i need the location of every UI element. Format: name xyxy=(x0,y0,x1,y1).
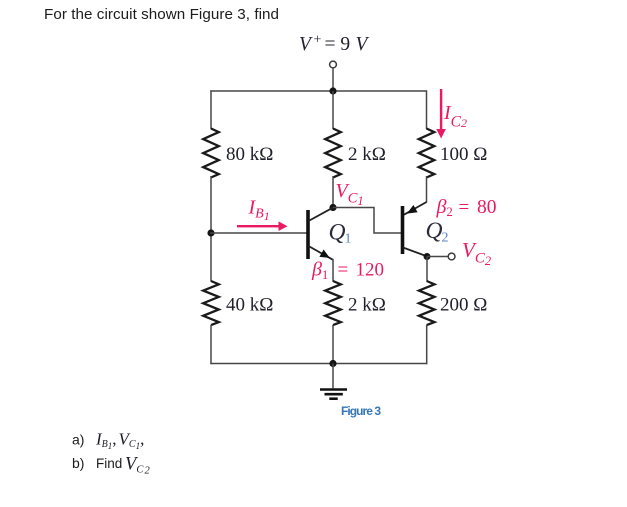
svg-text:2 kΩ: 2 kΩ xyxy=(348,144,386,165)
transistor Q1 base bar xyxy=(306,210,310,259)
Q1 collector diagonal xyxy=(309,207,334,221)
svg-text:100 Ω: 100 Ω xyxy=(440,144,487,165)
node: collector VC2 junction dot xyxy=(424,253,431,260)
svg-text:IB1,VC1,: IB1,VC1, xyxy=(95,430,144,452)
ground symbol xyxy=(320,364,347,399)
svg-text:b): b) xyxy=(72,455,84,471)
wire: right column top xyxy=(426,90,428,129)
wire: right column to Q2 emitter xyxy=(426,176,428,203)
transistor Q2 base bar xyxy=(401,206,405,254)
wire: left column middle xyxy=(210,176,212,282)
resistor RE1 2k zigzag xyxy=(325,281,341,325)
node: VC1 junction dot xyxy=(329,204,336,211)
svg-text:VC2: VC2 xyxy=(462,238,491,268)
svg-text:2 kΩ: 2 kΩ xyxy=(348,295,386,316)
wire: middle column top xyxy=(332,91,334,129)
svg-text:Q2: Q2 xyxy=(426,218,449,246)
Q2 collector diagonal xyxy=(403,248,428,257)
svg-text:IC2: IC2 xyxy=(443,102,467,131)
wire: Q2 collector down xyxy=(426,257,428,282)
wire: middle column bottom xyxy=(332,325,334,364)
resistor RC1 2k zigzag xyxy=(325,129,341,178)
wire: Q1 base wire xyxy=(210,232,306,234)
wire: left column top xyxy=(210,90,212,129)
wire: VC1 to Q2 base link xyxy=(333,208,402,234)
svg-text:β2=80: β2=80 xyxy=(436,196,497,219)
svg-text:V+= 9 V: V+= 9 V xyxy=(299,33,370,56)
svg-text:VC2: VC2 xyxy=(125,455,151,477)
svg-text:β1=120: β1=120 xyxy=(311,259,384,283)
svg-text:a): a) xyxy=(72,432,84,448)
svg-text:Find: Find xyxy=(96,456,122,471)
resistor R 80k zigzag xyxy=(203,129,219,178)
wire: to VC2 terminal xyxy=(427,256,448,258)
svg-text:Figure 3: Figure 3 xyxy=(341,404,381,418)
resistor R 40k zigzag xyxy=(203,281,219,325)
svg-text:For the circuit shown Figure 3: For the circuit shown Figure 3, find xyxy=(44,6,279,23)
Q2 emitter diagonal with arrow (PNP style pointing to bar) xyxy=(404,202,427,215)
supply terminal circle xyxy=(330,61,337,68)
wire: left column bottom xyxy=(210,325,212,364)
svg-text:200 Ω: 200 Ω xyxy=(440,295,487,316)
wire: bottom rail xyxy=(210,363,427,365)
wire: middle column to VC1 node xyxy=(332,176,334,208)
wire: right column bottom xyxy=(426,325,428,364)
resistor RC2 100 zigzag xyxy=(419,129,435,178)
VC2 terminal circle xyxy=(448,253,455,260)
svg-text:IB1: IB1 xyxy=(248,197,270,224)
svg-text:40 kΩ: 40 kΩ xyxy=(226,295,273,316)
red arrow IC2 xyxy=(436,89,446,139)
wire: Q1 emitter down xyxy=(332,259,334,282)
svg-text:Q1: Q1 xyxy=(329,220,352,247)
svg-text:VC1: VC1 xyxy=(336,180,364,208)
wire: supply stem xyxy=(332,68,334,91)
red arrow IB1 xyxy=(237,221,288,231)
resistor RE2 200 zigzag xyxy=(419,281,435,325)
node: ground junction dot xyxy=(329,360,336,367)
node: top rail junction dot xyxy=(329,87,336,94)
node: base divider junction dot xyxy=(207,229,214,236)
svg-text:80 kΩ: 80 kΩ xyxy=(226,144,273,165)
wire: top rail xyxy=(210,90,426,92)
Q1 emitter diagonal with arrow xyxy=(309,246,334,260)
